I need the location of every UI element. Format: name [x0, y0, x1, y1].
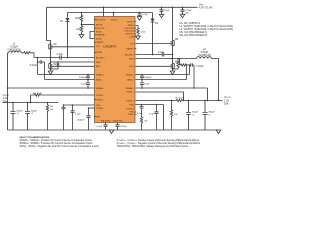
wire BG1 gate line: [52, 65, 96, 67]
svg-text:0.1µF: 0.1µF: [144, 84, 150, 86]
svg-text:TRACK/SS1: TRACK/SS1: [101, 119, 111, 122]
transistor M3: [171, 40, 174, 46]
resistor small beside M4: [173, 59, 180, 70]
svg-text:×2: ×2: [192, 113, 195, 116]
transistor M2: [49, 63, 52, 69]
wire VOSNS1+ line with Rg: [31, 94, 96, 96]
svg-text:RUN1: RUN1: [96, 31, 103, 33]
capacitor sense 0.1uF ch1: [86, 80, 90, 89]
capacitor COUT 100uF x2: [25, 103, 30, 131]
resistor preload 10k ch2: [170, 101, 172, 131]
svg-text:SNS2–: SNS2–: [127, 79, 134, 81]
svg-text:D1: D1: [60, 21, 64, 23]
capacitor VIN 270uF: [181, 7, 185, 14]
ground under M4: [170, 71, 175, 75]
transistor M4: [171, 63, 174, 69]
wire SNSA1+ line: [8, 87, 96, 89]
capacitor bottom 0.1uF under IC: [104, 123, 108, 131]
svg-text:D2: D2: [155, 23, 159, 25]
svg-text:0.33µH: 0.33µH: [201, 52, 209, 54]
capacitor sense 1000pF ch1: [86, 75, 90, 80]
wire VIN pin riser: [103, 7, 105, 16]
svg-text:0.1µF: 0.1µF: [75, 113, 81, 115]
wire SNS1- line: [45, 79, 96, 81]
note pin abbreviations bottom left: [20, 136, 100, 148]
wire BOOST2 line: [136, 54, 173, 56]
ground symbol bottom right end: [216, 130, 221, 134]
svg-text:4.5V TO 14V: 4.5V TO 14V: [199, 6, 213, 9]
svg-text:0.47µF: 0.47µF: [30, 65, 38, 67]
svg-text:0.1µF: 0.1µF: [97, 126, 103, 128]
wire VIN top rail: [47, 6, 198, 8]
svg-text:4.7µF: 4.7µF: [142, 14, 148, 16]
capacitor DCR 0.47uF ch1: [38, 58, 45, 80]
diode D1: [66, 13, 70, 58]
svg-text:SNSA1+: SNSA1+: [96, 87, 104, 90]
svg-text:1000pF: 1000pF: [79, 77, 87, 79]
svg-text:PGOOD2: PGOOD2: [125, 31, 135, 33]
capacitor VIN 4.7uF: [160, 7, 164, 14]
resistor RG1 10.7k: [34, 94, 42, 96]
svg-text:BOOST1: BOOST1: [96, 57, 105, 59]
wire TG1 gate line: [52, 46, 96, 48]
capacitor bottom 0.01uF under IC: [116, 123, 120, 131]
svg-text:TRACK/SS1, TRACK/SS2: Voltage: TRACK/SS1, TRACK/SS2: Voltage Ramping an…: [117, 145, 189, 148]
wire BG2 gate line: [136, 65, 172, 67]
wire sense tap B ch2: [186, 65, 188, 80]
svg-text:PLLIN: PLLIN: [96, 19, 102, 21]
svg-text:0.1µF: 0.1µF: [149, 113, 155, 115]
svg-text:10k: 10k: [174, 114, 178, 116]
resistor DCR series ch1: [23, 52, 34, 58]
ground symbol bottom center: [109, 130, 114, 134]
svg-text:ITEMP2: ITEMP2: [126, 48, 135, 50]
svg-text:30A: 30A: [3, 100, 8, 103]
wire SNSD2+ line: [136, 74, 190, 76]
capacitor COUT 330uF x2: [11, 103, 16, 131]
svg-text:INTVCC: INTVCC: [110, 19, 118, 21]
wire sense tap A ch2: [189, 65, 191, 75]
wire M4 source to gnd: [172, 69, 174, 71]
wire ITH1 line: [64, 104, 96, 106]
node junction dots: [7, 7, 220, 109]
wire SW2/L2 line: [136, 58, 197, 60]
svg-text:0.1µF: 0.1µF: [57, 54, 64, 56]
wire VOUT1 left drop: [7, 53, 9, 130]
wire sense left drop: [30, 95, 32, 103]
DCR sense network ch2: [180, 59, 195, 89]
svg-text:ITH2: ITH2: [129, 104, 134, 106]
svg-text:0.1µF: 0.1µF: [158, 52, 165, 54]
capacitor CB2 0.1uF: [162, 53, 164, 57]
wire SW to L1 / boost line: [34, 57, 96, 59]
svg-text:PHASMD: PHASMD: [96, 34, 106, 37]
svg-text:×2: ×2: [208, 113, 211, 116]
svg-text:L2: L2: [203, 49, 206, 51]
ground under FREQ resistor: [136, 36, 141, 40]
resistor VOSNS 20k: [46, 103, 48, 131]
node VOUT1 rail: [3, 102, 59, 104]
svg-text:1500pF: 1500pF: [77, 119, 85, 121]
resistor R 10k lower left: [80, 25, 82, 35]
wire TRACK/SS1 line: [89, 107, 96, 109]
svg-text:VOSNS1–: VOSNS1–: [96, 99, 105, 101]
transistor M1: [49, 44, 52, 50]
svg-text:VIN: VIN: [102, 19, 105, 21]
wire TG2 line: [136, 43, 172, 45]
ground rail bottom: [8, 129, 219, 131]
svg-text:MODE: MODE: [96, 24, 103, 26]
ground under M2: [48, 71, 53, 75]
svg-text:0.1µF: 0.1µF: [137, 113, 143, 115]
wire left frame VIN drop to M1 drain: [47, 7, 51, 43]
capacitor ITH1 b 0.1uF: [71, 105, 75, 130]
op-amp U1 LTC3774 IC body: [95, 17, 136, 123]
svg-text:SNS1–, SNS2–: Negative AC and: SNS1–, SNS2–: Negative AC and DC Current…: [20, 145, 100, 148]
svg-text:EXTVCC: EXTVCC: [126, 34, 135, 36]
svg-text:PGND: PGND: [128, 114, 134, 116]
svg-text:ITEMP1: ITEMP1: [96, 42, 105, 44]
svg-text:(744301033): (744301033): [198, 55, 211, 57]
svg-text:M3: M3: [175, 39, 179, 41]
svg-text:SW1: SW1: [96, 62, 101, 64]
svg-text:LTC3774: LTC3774: [103, 44, 116, 48]
svg-text:VOSNS2+: VOSNS2+: [126, 100, 135, 102]
svg-text:10µF: 10µF: [164, 10, 170, 12]
capacitor x156 0.1uF: [155, 105, 159, 131]
wire SNSD1+ line: [38, 74, 96, 76]
resistor R 100k upper left: [80, 13, 82, 25]
wire M3 drain to VIN rail: [172, 7, 174, 40]
svg-text:ITH1: ITH1: [96, 105, 101, 107]
svg-text:CLKOUT: CLKOUT: [96, 28, 105, 30]
wire RUN tie stub: [90, 32, 96, 39]
resistor ITH2 10k: [140, 116, 142, 130]
svg-text:1000pF: 1000pF: [144, 77, 152, 79]
svg-text:DRVCC: DRVCC: [127, 21, 135, 23]
svg-text:100k: 100k: [140, 32, 146, 34]
svg-text:10k: 10k: [144, 120, 148, 122]
wire SNSA2+ line: [136, 88, 208, 101]
capacitor sense 0.1uF ch2: [140, 80, 144, 89]
svg-text:×2: ×2: [31, 112, 34, 115]
capacitor ITH1: [62, 105, 66, 130]
svg-text:×2: ×2: [16, 112, 19, 115]
svg-text:SNSA2+: SNSA2+: [126, 87, 134, 90]
resistor RG2 10.7k: [176, 99, 184, 101]
inductor L1: [8, 51, 24, 53]
note component list top right: [180, 22, 234, 37]
svg-text:VFB1: VFB1: [96, 116, 100, 118]
capacitor CB1 0.1uF boost: [60, 56, 62, 60]
svg-text:VOSNS1+: VOSNS1+: [96, 95, 105, 97]
capacitor TRACK/SS1 1500pF: [87, 108, 91, 130]
wire FREQ pin line: [82, 24, 96, 26]
note remote sense bottom right: [117, 139, 201, 148]
svg-text:RUN2: RUN2: [96, 38, 103, 40]
wire INTVCC rail: [68, 12, 153, 14]
capacitor COUT2 100uF x2: [186, 101, 191, 131]
svg-text:SNSD2+: SNSD2+: [126, 74, 134, 76]
svg-text:TK/SS2: TK/SS2: [126, 108, 134, 110]
svg-text:10k: 10k: [50, 109, 54, 111]
resistor FREQ 100k: [136, 26, 140, 37]
svg-text:ILIM: ILIM: [130, 36, 134, 38]
pin stubs ticks: [94, 20, 136, 117]
inductor L2: [197, 57, 219, 101]
svg-text:30A: 30A: [224, 103, 229, 106]
wire VOSNS2+ / VOUT2 rail with Rg2: [136, 100, 223, 102]
svg-text:100k: 100k: [75, 18, 81, 20]
svg-text:TK/SS1: TK/SS1: [96, 108, 104, 110]
wire SW2 node vertical: [172, 46, 174, 63]
capacitor INTVCC 4.7uF: [138, 13, 142, 17]
svg-text:0.1µF: 0.1µF: [81, 84, 87, 86]
svg-text:M2, M4: BSC010NE2LSI: M2, M4: BSC010NE2LSI: [180, 34, 208, 37]
diode D2: [151, 13, 155, 55]
diode small beside M2: [51, 62, 60, 69]
svg-text:SW2: SW2: [129, 58, 134, 60]
svg-text:VOSNS2–: VOSNS2–: [126, 92, 135, 94]
wire TRACK/SS2 drop: [163, 105, 165, 131]
svg-text:PGND: PGND: [96, 52, 103, 54]
svg-text:L1: L1: [13, 44, 16, 46]
svg-text:BOOST2: BOOST2: [125, 54, 134, 56]
wire SW1 node vertical: [50, 50, 52, 64]
svg-text:0.47µF: 0.47µF: [196, 66, 204, 68]
wire VOSNS2- line: [136, 92, 184, 101]
capacitor ITH2: [140, 105, 144, 117]
svg-text:PGOOD1: PGOOD1: [125, 28, 135, 30]
svg-text:SNSD1+: SNSD1+: [96, 74, 104, 76]
capacitor COUT2 330uF x2: [203, 101, 208, 131]
svg-text:0.33µH: 0.33µH: [10, 47, 18, 49]
svg-text:TRACK/SS2: TRACK/SS2: [113, 119, 123, 122]
wire ITH2 line: [136, 104, 164, 106]
wire SW1 pin line: [51, 61, 96, 63]
wire INTVCC pin riser: [113, 13, 115, 17]
wire M2 source to gnd: [50, 69, 52, 71]
wire SNS2- line: [136, 79, 187, 81]
svg-text:RG 10.7k: RG 10.7k: [176, 98, 186, 100]
ground arrow below resistor stack: [79, 35, 84, 39]
svg-text:0.01µF: 0.01µF: [120, 126, 128, 128]
svg-text:FREQ: FREQ: [128, 25, 134, 27]
svg-text:20k: 20k: [50, 106, 54, 108]
svg-text:SNS1–: SNS1–: [96, 79, 103, 81]
svg-text:RG 10.7k: RG 10.7k: [33, 93, 43, 95]
svg-text:M1: M1: [54, 44, 58, 46]
svg-text:(744301033): (744301033): [7, 50, 20, 52]
svg-text:25V: 25V: [185, 13, 189, 15]
capacitor sense 1000pF ch2: [140, 75, 144, 80]
